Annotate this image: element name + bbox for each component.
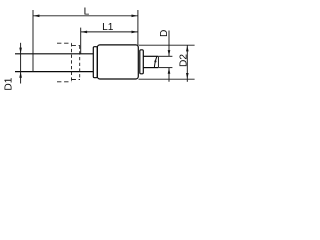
right stem slash knot	[154, 60, 156, 62]
arrowhead L right	[132, 15, 138, 18]
dimension line D lower	[168, 68, 170, 82]
dimension line L1	[81, 31, 138, 33]
tube stem top edge	[15, 53, 93, 55]
hidden vertical right	[79, 46, 81, 80]
right stem bottom edge	[143, 67, 158, 69]
hidden inner top line	[72, 45, 81, 47]
arrowhead D bottom	[168, 68, 171, 74]
hidden vertical left	[71, 43, 73, 82]
body outline	[97, 45, 138, 79]
dimension line D1 upper	[20, 43, 22, 84]
right stem end cap	[157, 56, 159, 67]
extension line right of L and L1	[137, 10, 139, 45]
right washer ring	[140, 50, 144, 74]
right stem top edge	[143, 55, 158, 57]
svg-text:L1: L1	[102, 22, 114, 33]
svg-text:L: L	[84, 6, 90, 17]
extension line left of L1	[80, 28, 82, 54]
extension line D2 bottom	[139, 78, 195, 80]
dimension line L	[33, 15, 138, 17]
arrowhead L1 right	[132, 31, 138, 34]
arrowhead D top	[168, 50, 171, 56]
arrowhead D2 bottom	[186, 73, 189, 79]
right stem diagonal slash	[154, 56, 157, 67]
hidden outer top line	[57, 42, 72, 44]
arrowhead D1 top	[19, 48, 22, 54]
svg-text:D2: D2	[179, 54, 190, 67]
dimension line D upper	[168, 31, 170, 57]
svg-text:D: D	[159, 30, 170, 37]
extension line D2 top	[139, 44, 195, 46]
hidden outer bottom line	[57, 81, 72, 83]
dimension line D2	[186, 45, 188, 82]
extension line D top	[159, 55, 173, 57]
tube stem bottom edge	[15, 71, 93, 73]
arrowhead D1 bottom	[19, 72, 22, 78]
extension line left of L	[32, 10, 34, 72]
svg-text:D1: D1	[4, 77, 15, 90]
arrowhead L left	[33, 15, 39, 18]
arrowhead D2 top	[186, 45, 189, 51]
left flange ring	[93, 47, 97, 78]
extension line D bottom	[159, 67, 173, 69]
hidden inner bottom line	[72, 79, 81, 81]
arrowhead L1 left	[81, 31, 87, 34]
